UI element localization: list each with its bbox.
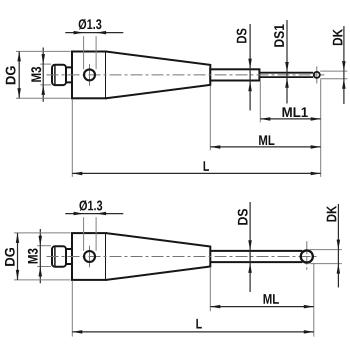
extension line ball right	[320, 79, 322, 177]
dimension Ø1.3 line	[65, 32, 123, 34]
label L	[204, 161, 209, 171]
label ML1	[283, 107, 308, 117]
dimension Ø1.3 extension lines (lower view)	[83, 217, 85, 251]
stylus ball	[314, 72, 320, 78]
taper cone	[106, 233, 210, 280]
dimension L line (lower view)	[72, 331, 313, 333]
extension line body left (lower view)	[71, 281, 73, 337]
dimension DK extension lines	[320, 70, 347, 72]
dimension M3 extension ticks	[40, 63, 51, 65]
extension line body left	[71, 99, 73, 177]
thread chamfer line	[54, 66, 56, 85]
cross hole	[84, 251, 95, 262]
dimension DG arrows (lower view)	[16, 233, 19, 243]
label ML	[259, 135, 274, 145]
dimension L arrows (lower view)	[72, 330, 82, 334]
body block	[72, 233, 106, 280]
extension line DS1 step	[259, 82, 261, 123]
label DS (lower view)	[238, 209, 248, 225]
neck	[66, 249, 72, 264]
dimension DK line (lower view)	[337, 204, 339, 288]
dimension M3 line	[42, 48, 44, 102]
dimension DS line (lower view)	[249, 202, 251, 292]
dimension DS arrows (lower view)	[248, 240, 252, 250]
taper cone	[106, 52, 210, 99]
dimension DK arrows (lower view)	[337, 240, 341, 250]
extension line cone end	[209, 86, 211, 150]
label DS	[237, 29, 247, 43]
label Ø1.3 (lower view)	[79, 200, 102, 211]
label Ø1.3	[79, 19, 102, 30]
shaft DS section	[210, 69, 259, 80]
label DG	[6, 66, 16, 84]
dimension M3 line (lower view)	[39, 229, 41, 283]
dimension M3 arrows	[42, 54, 46, 64]
dimension L line	[72, 172, 320, 174]
dimension DG line	[18, 51, 20, 98]
extension line cone end (lower view)	[209, 267, 211, 311]
label ML (lower view)	[264, 294, 279, 304]
dimension DG arrows	[17, 51, 21, 61]
dimension DG extension lines	[16, 50, 71, 52]
hole vertical centerline	[89, 64, 91, 86]
centerline	[47, 74, 325, 76]
dimension ML line	[210, 146, 320, 148]
extension line ball right (lower view)	[313, 263, 315, 337]
neck	[66, 67, 72, 82]
dimension DG line (lower view)	[17, 233, 19, 280]
thread M3 cylinder	[52, 65, 66, 85]
shaft DS section	[210, 251, 302, 262]
dimension Ø1.3 extension lines	[83, 36, 85, 69]
dimension ML1 arrows	[260, 117, 270, 121]
dimension ML1 line	[260, 118, 320, 120]
dimension DS arrows	[248, 59, 252, 69]
cross hole	[84, 69, 95, 80]
stylus ball	[301, 250, 313, 262]
label M3 (lower view)	[28, 249, 38, 264]
dimension Ø1.3 line (lower view)	[65, 213, 123, 215]
thread M3 cylinder	[52, 246, 66, 266]
dimension DS line	[249, 24, 251, 111]
thread chamfer line	[54, 247, 56, 266]
label DS1	[274, 24, 284, 46]
dimension ML arrows (lower view)	[210, 305, 220, 309]
label DK (lower view)	[327, 206, 337, 222]
ball centerline vertical	[306, 241, 308, 272]
dimension ML line (lower view)	[210, 306, 313, 308]
dimension DS1 line	[286, 20, 288, 104]
dimension ML arrows	[210, 145, 220, 149]
dimension Ø1.3 arrows	[74, 31, 84, 35]
centerline	[47, 256, 319, 258]
shaft DS1 section	[259, 73, 313, 77]
ball centerline vertical	[316, 66, 318, 83]
dimension DK extension lines (lower view)	[310, 249, 342, 251]
label L (lower view)	[196, 319, 201, 329]
body block	[72, 52, 106, 99]
dimension M3 arrows (lower view)	[39, 236, 43, 246]
dimension DS1 arrows	[285, 62, 289, 72]
hole vertical centerline	[89, 246, 91, 268]
dimension Ø1.3 arrows (lower view)	[74, 212, 84, 216]
label DG (lower view)	[5, 248, 15, 266]
dimension L arrows	[72, 172, 82, 176]
label M3	[31, 67, 41, 82]
dimension DK line	[343, 26, 345, 104]
label DK	[333, 29, 343, 45]
dimension M3 extension ticks (lower view)	[37, 245, 51, 247]
dimension DK arrows	[342, 61, 346, 71]
dimension DG extension lines (lower view)	[14, 232, 71, 234]
